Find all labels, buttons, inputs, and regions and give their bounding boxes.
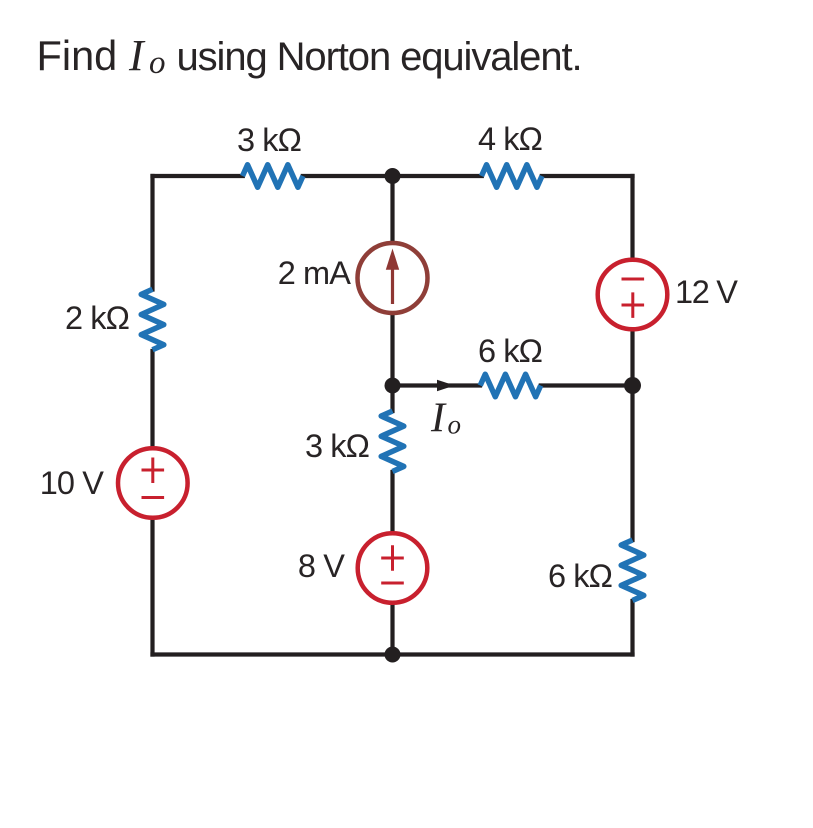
node dot bottom (385, 647, 401, 663)
svg-text:Find: Find (37, 32, 118, 79)
wire right (630, 176, 634, 655)
title (37, 31, 582, 81)
resistor 2 kΩ (left) (141, 289, 164, 349)
svg-text:12 V: 12 V (675, 274, 738, 310)
label Io (430, 396, 461, 442)
svg-text:I: I (128, 31, 146, 80)
voltage source 8 V (358, 533, 428, 603)
svg-text:I: I (430, 396, 447, 442)
wire middle vertical (390, 176, 394, 655)
svg-text:6 kΩ: 6 kΩ (478, 333, 542, 369)
current source 2 mA (358, 243, 428, 313)
node dot middle (385, 378, 401, 394)
wire middle horizontal (393, 383, 633, 387)
node dot top (385, 168, 401, 184)
voltage source 12 V (598, 260, 668, 330)
resistor 6 kΩ (middle) (480, 374, 540, 397)
wire bottom (153, 652, 633, 656)
resistor 6 kΩ (right) (621, 540, 644, 600)
voltage source 10 V (118, 448, 188, 518)
svg-text:3 kΩ: 3 kΩ (305, 428, 369, 464)
svg-text:o: o (448, 410, 462, 440)
svg-text:2 kΩ: 2 kΩ (65, 300, 129, 336)
wire top (153, 174, 633, 178)
resistor 3 kΩ (top left) (243, 165, 303, 188)
svg-text:2 mA: 2 mA (278, 255, 351, 291)
svg-text:10 V: 10 V (40, 465, 104, 501)
node dot middle right (624, 377, 641, 394)
resistor 4 kΩ (top right) (482, 165, 542, 188)
wire left (150, 176, 154, 655)
resistor 3 kΩ (middle vertical) (381, 411, 404, 471)
svg-text:8 V: 8 V (298, 548, 345, 584)
svg-text:4 kΩ: 4 kΩ (478, 121, 542, 157)
current arrow Io (437, 380, 455, 392)
svg-text:using Norton equivalent.: using Norton equivalent. (177, 35, 582, 79)
svg-text:o: o (149, 45, 166, 81)
svg-text:3 kΩ: 3 kΩ (237, 122, 301, 158)
svg-text:6 kΩ: 6 kΩ (548, 558, 612, 594)
